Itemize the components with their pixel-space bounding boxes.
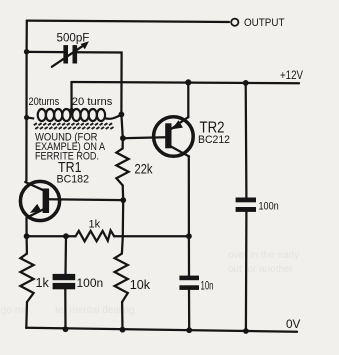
ferrite rod (dashed) — [34, 123, 37, 125]
node: coil right x cap branch — [119, 112, 125, 118]
wire: 10n down — [188, 290, 190, 330]
TR1 emitter lead with arrow — [27, 209, 44, 218]
inductor L1 tapped coil — [27, 109, 122, 121]
resistor R 1k (vertical, emitter) — [25, 236, 28, 253]
TR1 collector lead — [25, 182, 43, 190]
resistor R 10k — [115, 254, 128, 302]
svg-text:BC182: BC182 — [57, 174, 90, 186]
svg-text:1k: 1k — [36, 276, 50, 290]
svg-text:OUTPUT: OUTPUT — [244, 17, 285, 29]
+12V supply rail — [72, 82, 300, 83]
svg-text:0V: 0V — [286, 317, 301, 331]
wire: 100n right down to 0V — [245, 212, 248, 331]
wire: TR2 base lead — [123, 136, 165, 139]
wire: 22k to TR1 base node — [122, 185, 125, 200]
svg-text:20turns: 20turns — [29, 96, 60, 108]
node: +12V x 100n (right) — [243, 80, 249, 86]
wire: emitter/feedback rail — [27, 235, 76, 237]
resistor R 1k (horizontal) — [76, 230, 115, 241]
wire: capacitor branch left — [27, 51, 64, 53]
transistor TR2 (PNP BC212) — [154, 117, 194, 157]
svg-text:1k: 1k — [89, 219, 101, 231]
node: tap meets coil — [69, 108, 75, 114]
node: TR1 base junction — [120, 197, 126, 203]
wire: TR1 emitter down — [25, 218, 27, 236]
svg-text:100n: 100n — [259, 200, 279, 212]
node: collector x emitter-feedback rail — [186, 233, 192, 239]
svg-text:BC212: BC212 — [198, 134, 230, 146]
node: 100n top junction — [63, 233, 69, 239]
svg-text:out for another: out for another — [228, 264, 294, 275]
svg-text:22k: 22k — [135, 160, 154, 176]
node: rail x cap branch — [24, 49, 29, 54]
wire: 100n down — [64, 289, 66, 329]
resistor R 22k — [116, 148, 128, 185]
transistor TR1 (NPN BC182) — [20, 181, 59, 220]
TR2 collector lead — [171, 147, 189, 157]
output terminal — [231, 19, 238, 26]
wire: top output line — [27, 21, 229, 22]
capacitor C 100n (right, supply decoupling) — [245, 83, 248, 197]
TR2 emitter lead with arrow (points into base: PNP) — [172, 117, 189, 129]
svg-text:10k: 10k — [130, 278, 151, 292]
svg-text:go md: go md — [1, 305, 29, 316]
wire: coil centre tap riser — [70, 82, 72, 112]
wire: TR2 collector down — [188, 156, 190, 236]
node: TR1 emitter junction — [24, 233, 30, 239]
wire: capacitor branch right, down to coil — [77, 52, 121, 114]
svg-text:+12V: +12V — [280, 69, 303, 82]
wire: TR1 base lead — [47, 198, 123, 201]
variable-capacitor arrow — [52, 45, 85, 67]
svg-text:20 turns: 20 turns — [72, 96, 113, 108]
capacitor C 500pF variable — [63, 45, 68, 63]
wire: left rail (collector rail) — [25, 21, 28, 181]
node: 10k x 0V — [120, 327, 126, 333]
node: +12V x TR2 emitter — [185, 79, 191, 85]
node: 10n x 0V — [186, 327, 192, 333]
node: 100n right x 0V — [243, 328, 249, 334]
svg-text:500pF: 500pF — [57, 31, 90, 44]
capacitor C 100n (left) — [64, 236, 67, 274]
node: 100n x 0V — [63, 326, 69, 332]
wire: bias chain vertical (coil node to 22k) — [121, 114, 122, 148]
wire: TR2 emitter to +12V — [187, 82, 189, 117]
node: rail x coil left end — [24, 115, 29, 120]
svg-text:over in the early: over in the early — [228, 250, 299, 261]
0V rail — [26, 328, 297, 332]
wire: 10k to 0V — [121, 302, 124, 330]
wire: 1k down to 0V — [25, 302, 28, 328]
capacitor C 10n — [188, 236, 190, 275]
wire: bias chain continues down to 10k (crosses emitter rail, no dot) — [122, 200, 123, 254]
node: TR2 base junction — [120, 135, 126, 141]
svg-text:100n: 100n — [77, 276, 104, 290]
svg-text:10n: 10n — [201, 279, 214, 293]
